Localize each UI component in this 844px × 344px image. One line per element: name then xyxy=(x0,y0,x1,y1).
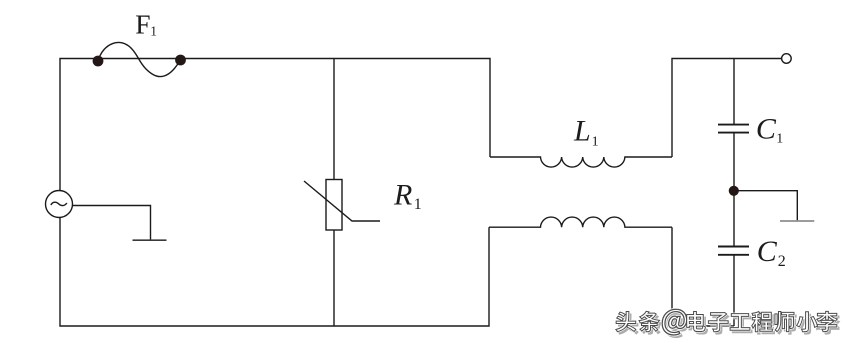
source AC circle xyxy=(46,191,73,218)
fuse F1 dot left xyxy=(93,56,104,67)
wire R1 branch lower xyxy=(333,230,335,326)
fuse F1 dot right xyxy=(175,55,186,66)
node junction dot xyxy=(729,186,739,196)
wire winding B right leg xyxy=(672,227,734,326)
wire node to C2 xyxy=(733,191,735,246)
svg-text:L1: L1 xyxy=(573,115,599,150)
inductor L1 winding B xyxy=(489,217,672,227)
watermark halo xyxy=(616,309,837,335)
wire C1 to node xyxy=(733,133,735,190)
watermark text 头条@电子工程师小李 xyxy=(616,309,837,335)
ground G2 bar xyxy=(780,220,814,222)
wire top-left rail xyxy=(60,59,490,191)
varistor R1 diagonal xyxy=(304,181,380,221)
wire C2 to bottom rail xyxy=(733,255,735,326)
svg-text:C2: C2 xyxy=(757,235,786,270)
wire left rail lower xyxy=(60,218,489,327)
inductor L1 winding A xyxy=(490,157,672,167)
source AC tilde xyxy=(51,202,67,205)
wire C branch upper xyxy=(733,59,735,125)
ground G1 bar xyxy=(133,239,167,241)
svg-text:C1: C1 xyxy=(756,113,783,147)
wire source tap to ground xyxy=(73,206,151,240)
terminal output circle xyxy=(782,54,792,64)
fuse F1 curve xyxy=(98,42,181,76)
wire top-right rail xyxy=(672,59,781,158)
watermark shadow xyxy=(618,312,839,338)
varistor R1 body xyxy=(326,180,342,231)
wire node to ground G2 xyxy=(734,191,797,221)
svg-text:R1: R1 xyxy=(393,179,422,214)
capacitor C1 plates xyxy=(718,124,749,126)
wire R1 branch upper xyxy=(333,59,335,180)
capacitor C2 plates xyxy=(718,246,749,248)
svg-text:F1: F1 xyxy=(135,9,157,40)
